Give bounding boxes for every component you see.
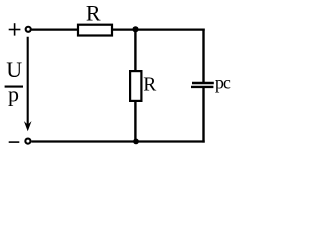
- capacitor pc plate bottom: [191, 86, 213, 88]
- terminal (top, +): [26, 27, 31, 32]
- capacitor pc plate top: [192, 82, 214, 84]
- wire top rail: [31, 29, 204, 31]
- wire right branch lower: [202, 87, 204, 143]
- node junction dot bottom: [133, 139, 139, 145]
- wire middle branch upper: [134, 29, 136, 72]
- svg-text:R: R: [143, 75, 156, 96]
- fraction bar of U/p: [5, 86, 23, 88]
- node junction dot top: [132, 26, 138, 32]
- resistor R (middle, vertical): [130, 71, 141, 101]
- wire bottom rail: [31, 140, 204, 142]
- wire middle branch lower: [134, 101, 136, 143]
- plus terminal sign: [9, 23, 21, 35]
- svg-text:p: p: [8, 82, 19, 107]
- resistor R (top, horizontal): [78, 25, 112, 36]
- svg-text:U: U: [6, 57, 22, 82]
- terminal (bottom, -): [25, 139, 30, 144]
- voltage arrow line Up: [27, 37, 29, 126]
- svg-text:pc: pc: [215, 73, 231, 93]
- wire right branch upper: [202, 29, 204, 84]
- minus terminal sign: [9, 141, 20, 143]
- voltage arrow head: [24, 121, 32, 131]
- svg-text:R: R: [86, 1, 101, 26]
